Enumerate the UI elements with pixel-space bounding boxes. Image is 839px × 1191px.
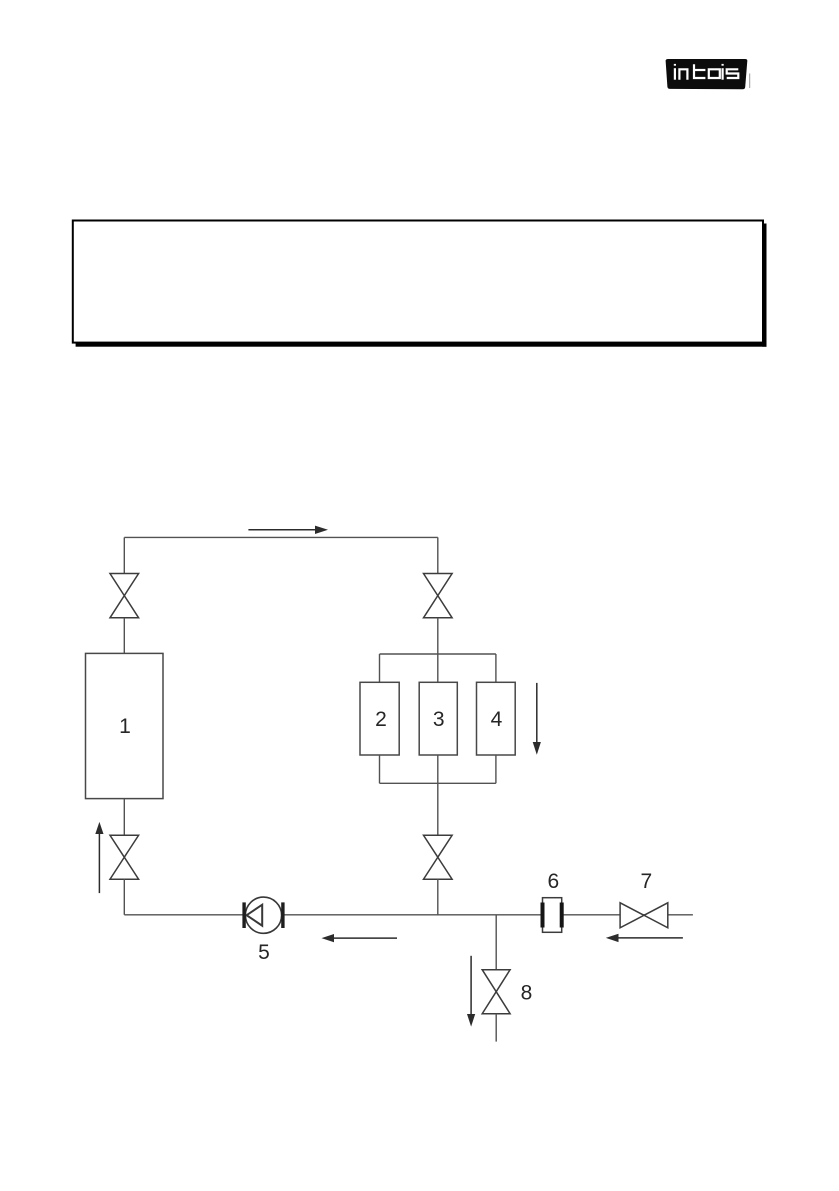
valve V1 (top left, vertical) — [110, 574, 139, 618]
svg-text:2: 2 — [375, 708, 387, 731]
arrow flow down (drain) — [467, 956, 475, 1027]
svg-text:1: 1 — [119, 715, 131, 738]
manifold bottom header — [380, 782, 496, 784]
manifold bottom stub right — [495, 755, 497, 783]
wire drain branch upper — [495, 915, 497, 970]
vessel 1 — [86, 653, 164, 798]
wire vessel 1 to valve V2 — [123, 799, 125, 836]
valve V4 (top right, vertical) — [424, 574, 453, 618]
vessel 3 — [419, 682, 457, 755]
svg-text:6: 6 — [548, 870, 560, 893]
wire valve V2 to bottom run — [123, 879, 125, 915]
svg-text:7: 7 — [640, 870, 652, 893]
svg-text:3: 3 — [433, 708, 445, 731]
wire valve V3 to bottom run — [437, 879, 439, 915]
wire manifold to valve V3 — [437, 783, 439, 835]
manifold bottom stub center — [437, 755, 439, 783]
manifold top header — [380, 653, 496, 655]
component 6 (inline coupling) — [543, 898, 562, 933]
svg-text:8: 8 — [521, 982, 533, 1005]
arrow flow down (right of manifold) — [533, 683, 541, 755]
manifold top stub left — [379, 654, 381, 682]
wire valve V1 to vessel 1 — [123, 618, 125, 654]
shadowed text box — [73, 221, 767, 347]
logo intois — [666, 59, 750, 89]
svg-text:5: 5 — [258, 941, 270, 964]
valve V2 (below vessel 1, vertical) — [110, 835, 139, 879]
arrow flow left (middle) — [322, 934, 398, 942]
wire top header — [124, 536, 438, 538]
vessel 2 — [360, 682, 399, 755]
manifold top stub right — [495, 654, 497, 682]
wire drain branch lower — [495, 1014, 497, 1042]
pump 5 — [244, 897, 283, 933]
valve V3 (below manifold, vertical) — [424, 835, 453, 879]
arrow flow up (left) — [95, 822, 103, 893]
wire left riser upper — [123, 537, 125, 573]
svg-text:4: 4 — [491, 708, 503, 731]
valve 7 (horizontal) — [620, 903, 668, 928]
wire right riser upper — [437, 537, 439, 573]
wire valve V4 to manifold center — [437, 618, 439, 683]
wire bottom run — [124, 914, 693, 916]
valve 8 (drain, vertical) — [482, 970, 510, 1014]
arrow flow left (inlet right) — [606, 934, 683, 942]
vessel 4 — [477, 682, 516, 755]
manifold bottom stub left — [379, 755, 381, 783]
arrow flow right (top) — [248, 526, 328, 534]
